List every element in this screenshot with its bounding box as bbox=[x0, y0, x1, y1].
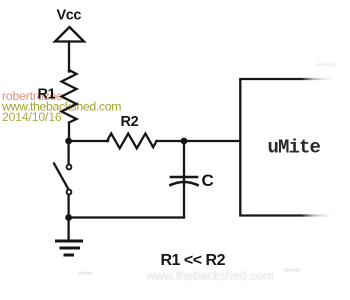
wire R2 to node B bbox=[157, 140, 185, 142]
switch SW1 terminal bottom bbox=[67, 190, 72, 195]
svg-text:R2: R2 bbox=[121, 114, 139, 130]
svg-text:Vcc: Vcc bbox=[57, 8, 82, 24]
svg-text:2014/10/16: 2014/10/16 bbox=[2, 110, 62, 124]
node A junction bbox=[65, 138, 72, 145]
wire Vcc to R1 bbox=[68, 42, 70, 72]
svg-text:R1: R1 bbox=[38, 87, 56, 103]
resistor R2 bbox=[107, 134, 157, 149]
wire switch to node C bbox=[67, 195, 69, 218]
switch SW1 terminal top bbox=[67, 165, 72, 170]
ground wire bbox=[67, 218, 69, 242]
switch SW1 arm bbox=[54, 164, 68, 189]
wire node A to R2 bbox=[69, 140, 108, 142]
wire R1 to node A bbox=[68, 123, 70, 142]
wire capacitor to bottom rail bbox=[183, 184, 185, 218]
node B junction bbox=[181, 138, 188, 145]
svg-text:C: C bbox=[202, 171, 214, 190]
wire node A to switch bbox=[67, 141, 69, 164]
node C junction bbox=[65, 214, 72, 221]
uMite box bbox=[239, 79, 331, 216]
svg-text:uMite: uMite bbox=[268, 137, 321, 159]
ground symbol bbox=[57, 240, 82, 243]
resistor R1 bbox=[62, 70, 77, 123]
svg-text:R1 << R2: R1 << R2 bbox=[161, 252, 226, 269]
capacitor C top plate bbox=[171, 176, 197, 179]
wire node C to capacitor bottom bbox=[69, 216, 184, 218]
wire node B to capacitor top bbox=[183, 141, 185, 177]
wire node B to uMite bbox=[184, 140, 240, 142]
capacitor C lead through plate bbox=[183, 177, 185, 182]
Vcc power symbol bbox=[55, 27, 84, 42]
capacitor C bottom plate bbox=[171, 182, 198, 185]
svg-text:www.thebackshed.com: www.thebackshed.com bbox=[145, 269, 274, 283]
watermark ghost bottom bbox=[78, 64, 336, 284]
